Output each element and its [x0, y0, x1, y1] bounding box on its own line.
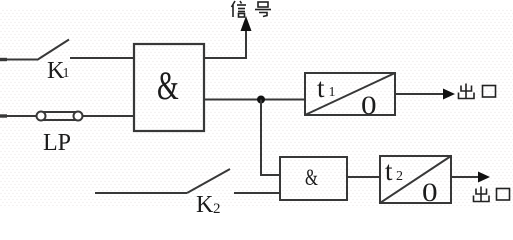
svg-text:&: & — [157, 64, 179, 108]
glyph Hao — [255, 2, 271, 17]
svg-text:t: t — [385, 156, 393, 186]
svg-text:2: 2 — [396, 169, 403, 184]
node A junction dot — [257, 96, 265, 104]
wire U1 to signal arrow — [204, 29, 246, 58]
wire U2 to timer T2 — [347, 176, 380, 178]
glyph Chu top — [459, 84, 475, 99]
label XinHao (signal) hand-drawn glyphs — [232, 1, 272, 17]
wire T2 to exit arrow — [451, 176, 479, 178]
svg-text:1: 1 — [329, 85, 336, 100]
label ChuKou (exit) bottom hand-drawn glyphs — [474, 187, 510, 202]
glyph Chu bottom — [474, 187, 490, 202]
svg-text:&: & — [305, 165, 318, 190]
glyph Xin — [232, 1, 247, 17]
wire U1 output to node A — [204, 99, 305, 101]
glyph Kou top — [483, 86, 496, 98]
svg-text:2: 2 — [213, 201, 221, 213]
switch K2 blade — [187, 169, 230, 193]
AND gate U1 box — [134, 44, 204, 131]
timer T2 diagonal — [380, 156, 451, 203]
timer T1 box — [305, 73, 395, 115]
svg-text:0: 0 — [422, 178, 438, 207]
signal arrowhead — [241, 16, 252, 31]
exit arrowhead bottom — [478, 172, 490, 183]
svg-text:K: K — [196, 192, 214, 213]
wire T1 to exit arrow — [395, 93, 445, 95]
svg-text:LP: LP — [43, 130, 71, 156]
wire LP to AND gate U1 — [82, 115, 134, 117]
timer T1 diagonal — [305, 73, 395, 115]
exit arrowhead top — [443, 89, 455, 100]
wire K2 to AND gate U2 — [234, 192, 280, 194]
glyph Kou bottom — [497, 189, 510, 201]
strap LP body — [37, 112, 83, 121]
strap LP left lead wire — [0, 115, 37, 117]
switch K1 left lead wire — [0, 59, 37, 61]
svg-text:t: t — [317, 73, 325, 103]
switch K1 blade — [37, 40, 69, 61]
svg-text:0: 0 — [361, 91, 377, 120]
svg-text:1: 1 — [63, 66, 70, 81]
switch K2 left lead wire — [95, 192, 187, 194]
label ChuKou (exit) top hand-drawn glyphs — [459, 84, 496, 99]
AND gate U2 box — [280, 157, 347, 200]
wire K1 to AND gate U1 — [70, 57, 134, 59]
wire node A down to AND gate U2 — [261, 100, 280, 176]
timer T2 box — [380, 156, 451, 203]
